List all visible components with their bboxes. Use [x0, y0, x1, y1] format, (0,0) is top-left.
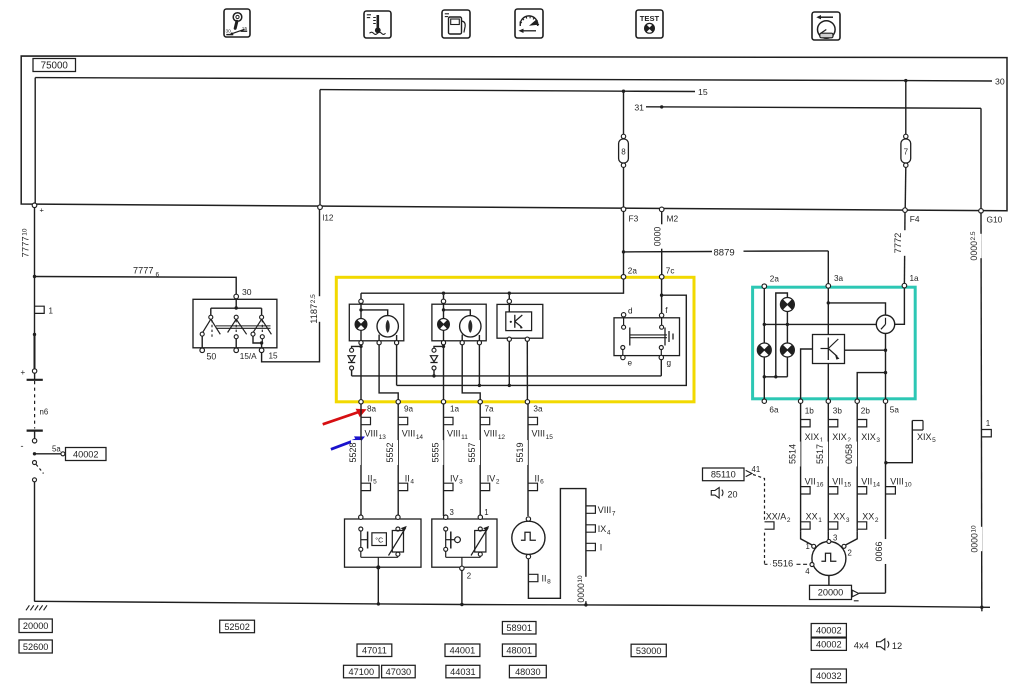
wire column 5517 [827, 403, 829, 531]
connector II4 [398, 483, 408, 490]
svg-text:F3: F3 [629, 214, 639, 224]
svg-text:40002: 40002 [816, 640, 842, 650]
fuel sender pin 2 [460, 566, 464, 570]
svg-text:41: 41 [752, 465, 761, 474]
svg-text:F4: F4 [910, 214, 920, 224]
wire label 5517 [818, 442, 828, 467]
svg-text:53000: 53000 [636, 646, 662, 656]
wire 7a step [462, 345, 480, 400]
wire D2 to diode line [433, 370, 435, 376]
ignition switch wire 50 [201, 336, 203, 348]
svg-text:1a: 1a [910, 274, 920, 283]
gauge 2 dial [460, 316, 481, 337]
20000 output arrow [852, 590, 859, 597]
node 5a [883, 399, 887, 403]
wire battery feed upper [34, 208, 36, 277]
module K symbol [827, 338, 829, 361]
ignition switch contact drops [210, 308, 212, 315]
temp sender rheostat [392, 531, 403, 553]
wire tach to 20000 [828, 576, 830, 586]
connector IX4 on loop [586, 525, 596, 532]
temp sender pins top [359, 515, 363, 519]
fuel sender box [432, 519, 497, 567]
wire fuel sender to ground [461, 571, 463, 605]
wire label 5519 [518, 440, 528, 465]
check panel lamp line [764, 323, 876, 325]
connector VIII7 on loop [586, 506, 596, 513]
wire 2b to tach pin2 [846, 532, 857, 545]
svg-text:20000: 20000 [23, 621, 49, 631]
icon fuel pump symbol [442, 10, 470, 38]
wire lamp B to 6a [763, 357, 765, 400]
svg-text:2: 2 [467, 572, 471, 581]
wire column 5557 [479, 404, 481, 516]
svg-text:M2: M2 [667, 214, 679, 224]
wire label 0000 2.5 G10 [972, 234, 982, 258]
wire column 5552 [397, 404, 399, 516]
wire label 5555 [433, 440, 443, 465]
connector XIX1 [801, 420, 811, 427]
svg-text:d: d [628, 307, 633, 316]
label box 48001 [502, 644, 536, 657]
wire 3b to tach pin3 [827, 532, 829, 540]
gauge module 1 lower wiring [360, 330, 362, 340]
svg-text:9a: 9a [404, 405, 414, 414]
svg-text:44001: 44001 [450, 646, 476, 656]
svg-text:7772: 7772 [893, 233, 903, 254]
svg-text:I: I [600, 543, 603, 553]
tach pin 2 [842, 544, 846, 548]
wire 9a step [379, 345, 398, 400]
label box 44001 [445, 644, 480, 657]
wire battery negative down [34, 482, 36, 601]
ground symbol hatching [26, 605, 29, 610]
wire column 5555 [443, 404, 445, 516]
svg-text:1a: 1a [450, 405, 460, 414]
svg-text:3: 3 [450, 508, 454, 517]
connector VII16 [801, 487, 811, 494]
svg-text:1: 1 [49, 307, 54, 316]
wire label 5557 [470, 440, 480, 465]
svg-text:58901: 58901 [506, 623, 532, 633]
node 1a turquoise [902, 283, 907, 288]
svg-text:31: 31 [634, 102, 644, 112]
junction bus gauge2 [442, 292, 445, 295]
connector VII15 [828, 487, 838, 494]
svg-text:0000: 0000 [653, 227, 663, 247]
wire bus 30 [35, 78, 992, 81]
node 7a [478, 400, 482, 404]
temp sender output junction [376, 565, 380, 569]
wire K left pin to 1b [801, 349, 813, 400]
fuel sender pin 3 [444, 515, 448, 519]
tachometer square wave [821, 553, 836, 561]
transducer pin g [659, 346, 663, 350]
junction battery wire [33, 333, 36, 336]
node 6a [762, 399, 766, 403]
wire K bottom to 3b [827, 364, 829, 400]
wire 5a column [885, 403, 887, 593]
wire label 0000 10 loop [579, 577, 589, 601]
svg-text:-: - [21, 441, 24, 451]
wire temp sender to ground [377, 567, 379, 604]
svg-text:44031: 44031 [450, 667, 476, 677]
gauge module 2 internal wiring [443, 303, 445, 318]
svg-text:2a: 2a [770, 275, 780, 284]
node 3b [826, 399, 830, 403]
svg-text:6a: 6a [769, 406, 779, 415]
wire 7777 to ignition switch [35, 277, 237, 295]
svg-text:g: g [667, 359, 672, 368]
svg-text:85110: 85110 [711, 470, 736, 480]
wire G10 down [980, 212, 983, 607]
svg-text:4x4: 4x4 [854, 641, 869, 651]
junction on bus 31 [660, 105, 663, 108]
tach pin 1 [812, 544, 816, 548]
wire battery feed mid [34, 277, 36, 369]
ignition switch top bar [211, 307, 262, 309]
svg-text:G10: G10 [987, 214, 1003, 224]
junction 7c branch [660, 294, 663, 297]
svg-text:20000: 20000 [818, 588, 844, 598]
terminal 15 [259, 348, 264, 353]
label box 40002 battery [66, 448, 107, 461]
junction 8879 [622, 250, 625, 253]
connector XIX2 [828, 420, 838, 427]
ignition switch wire 15A [235, 339, 237, 348]
gauge module 2 bottom pins [441, 341, 445, 345]
svg-text:3a: 3a [533, 405, 543, 414]
svg-text:°C: °C [375, 537, 383, 545]
svg-text:8a: 8a [367, 405, 377, 414]
junction loop at gauge2 pin3 [478, 384, 481, 387]
wire 2a into cluster [361, 279, 624, 293]
module2 diode branch [442, 345, 445, 348]
gauge module 1 internal wiring [360, 303, 362, 318]
check panel highlight box (turquoise) [753, 287, 916, 399]
wire 3a drop [827, 288, 829, 334]
svg-text:7: 7 [904, 148, 909, 157]
wire pin g to diode line [660, 360, 662, 376]
junction bus stabiliser [508, 292, 511, 295]
svg-text:48030: 48030 [515, 667, 541, 677]
label box 40032 [811, 669, 846, 683]
label box 52502 [220, 620, 255, 633]
node 2b [855, 399, 859, 403]
svg-text:75000: 75000 [41, 61, 69, 72]
temp sender inner pins [359, 527, 363, 531]
label box 20000 ground [19, 619, 52, 633]
wire battery thick [34, 335, 36, 369]
wire column 5514 [800, 403, 802, 531]
temp sender internal bus [360, 551, 362, 557]
junction loop at stabiliser pin [508, 384, 511, 387]
svg-text:15/A: 15/A [240, 352, 257, 361]
node 3a [525, 400, 529, 404]
node 7c yellow [659, 275, 664, 280]
node I12 [318, 205, 323, 210]
junction 5a branch [33, 452, 36, 455]
connector XIX5 [912, 420, 923, 422]
connector XX1 [801, 522, 811, 529]
node 3a turquoise [826, 284, 831, 289]
node F3 [621, 207, 626, 212]
svg-text:47011: 47011 [362, 646, 387, 656]
ignition switch link bar [216, 325, 271, 327]
label box 53000 [631, 644, 666, 657]
svg-text:15: 15 [269, 352, 279, 361]
fuel level float switch [445, 531, 447, 547]
transducer box [614, 318, 680, 356]
wire drop to I12 [319, 90, 321, 206]
connector XX/A2 [765, 522, 775, 529]
speed sensor bottom pin [526, 554, 530, 558]
svg-text:3b: 3b [833, 407, 843, 416]
wire inner left edge [34, 78, 36, 205]
lamp A bypass wire [776, 293, 788, 377]
connector I on loop [586, 543, 596, 550]
dashed wire 85110 to tach pin4 [753, 475, 765, 521]
icon coolant thermometer symbol [364, 11, 391, 38]
connector XX3 [828, 522, 838, 529]
blue annotation arrow [331, 439, 359, 450]
battery cell gap dashed [34, 381, 36, 429]
fuse 7 [904, 134, 908, 138]
speaker symbol 85110 [711, 488, 719, 499]
wire F3 to 2a [623, 211, 625, 274]
label box 40002 upper [811, 624, 846, 638]
icon TEST symbol [636, 10, 663, 38]
label box 47100 [344, 665, 380, 678]
ignition switch feed [235, 299, 237, 308]
svg-text:1: 1 [986, 419, 991, 428]
connector VIII13 [361, 417, 371, 424]
svg-text:5552: 5552 [385, 442, 395, 462]
terminal 15/A [234, 348, 239, 353]
wire module2 pin3 drop [478, 345, 480, 386]
svg-text:6: 6 [156, 272, 160, 279]
node 1a [441, 400, 445, 404]
wire column 0058 [856, 403, 858, 531]
svg-text:47100: 47100 [349, 667, 375, 677]
wire label 5552 [388, 440, 398, 465]
ground junction G10 column [980, 606, 983, 609]
connector II5 [361, 483, 371, 490]
wire speed sensor loop [528, 489, 586, 599]
svg-text:e: e [628, 359, 633, 368]
wire F4 to 1a [903, 212, 906, 283]
svg-text:2b: 2b [861, 407, 871, 416]
svg-text:2: 2 [848, 548, 852, 557]
ignition switch box [193, 299, 277, 348]
wire label 0058 [847, 442, 857, 467]
ignition switch wire 15 internal [253, 336, 262, 343]
svg-text:0058: 0058 [844, 444, 854, 464]
electronic module K box [813, 335, 845, 364]
fuel sender rheostat [475, 531, 486, 553]
module1 diode branch [359, 345, 362, 348]
icon ignition key symbol [224, 9, 250, 37]
connector VIII11 [444, 417, 454, 424]
svg-text:5555: 5555 [430, 442, 440, 462]
clock [876, 315, 894, 333]
connector XIX3 [857, 420, 867, 427]
wire label 5514 [791, 442, 801, 467]
wire label 0000 10 G10 [973, 527, 983, 551]
fuse 7 wire lower [904, 167, 907, 209]
svg-text:n6: n6 [40, 408, 49, 417]
svg-text:47030: 47030 [386, 667, 412, 677]
svg-text:5519: 5519 [515, 442, 525, 462]
ignition switch arm 15 [253, 319, 261, 332]
connector II8 [528, 574, 538, 581]
connector II6 [528, 483, 538, 490]
connector IV3 [444, 483, 454, 490]
label box 48030 [509, 665, 546, 678]
svg-text:30: 30 [995, 76, 1005, 86]
connector IV2 [480, 483, 490, 490]
wire M2 to 7c [661, 212, 663, 275]
svg-text:15: 15 [698, 87, 708, 97]
wire to 40002 [35, 453, 61, 455]
warning lamp A [780, 298, 794, 312]
wire 7c into cluster [661, 279, 663, 313]
wire 8a drop [360, 345, 362, 400]
connector VIII12 [480, 417, 490, 424]
fuel sender inner pins [444, 527, 448, 531]
wire 3a to clock top [828, 303, 885, 315]
ignition switch arm 50 [203, 319, 211, 332]
junction unit 75000 outer box [21, 56, 1007, 211]
wire label 0066 [877, 539, 887, 564]
voltage stabiliser feed [508, 303, 510, 312]
svg-text:3a: 3a [834, 274, 844, 283]
warning lamp 2 [438, 319, 450, 331]
tach pin 4 [810, 563, 814, 567]
connector VIII15 [528, 417, 538, 424]
svg-text:8: 8 [621, 148, 626, 157]
svg-text:7a: 7a [485, 405, 495, 414]
voltage stabiliser bottom pins [507, 337, 511, 341]
svg-text:+: + [21, 368, 26, 377]
diode D2 [432, 348, 436, 352]
svg-text:2a: 2a [628, 267, 638, 276]
svg-text:0066: 0066 [874, 541, 884, 561]
label box 47030 [382, 665, 416, 678]
svg-text:40002: 40002 [816, 626, 842, 636]
wire clock to 5a [885, 334, 887, 400]
svg-text:40032: 40032 [816, 671, 842, 681]
tach pin 3 [827, 539, 831, 543]
svg-text:5514: 5514 [788, 444, 798, 464]
transducer pin f [659, 313, 663, 317]
wire module1 pin3 drop [396, 345, 398, 386]
svg-text:5a: 5a [52, 445, 61, 454]
icon odometer gauge symbol [812, 12, 840, 40]
instrument cluster highlight box (yellow) [336, 277, 694, 402]
node 9a [396, 400, 400, 404]
wire diode line [351, 370, 353, 376]
svg-text:7777: 7777 [133, 266, 153, 276]
wire loop to ground [585, 572, 587, 605]
connector 1 [35, 306, 44, 313]
wire label 5528 [351, 440, 361, 465]
connector 1 G10 [982, 430, 992, 437]
speed sensor circle [512, 521, 545, 554]
svg-text:5516: 5516 [773, 559, 794, 569]
svg-text:5557: 5557 [467, 442, 477, 462]
svg-text:20: 20 [728, 489, 738, 499]
svg-text:1: 1 [484, 508, 488, 517]
svg-text:4: 4 [805, 567, 810, 576]
junction on bus 30 [904, 79, 907, 82]
svg-text:30: 30 [242, 287, 252, 297]
node 8a [359, 400, 363, 404]
svg-text:40002: 40002 [73, 449, 99, 459]
temperature sender box [345, 519, 422, 567]
wire column 5528 [360, 404, 362, 516]
node + (battery feed) [32, 203, 37, 208]
fuse 8 [621, 134, 625, 138]
svg-text:48001: 48001 [506, 646, 532, 656]
svg-text:3: 3 [833, 533, 837, 542]
svg-text:50: 50 [207, 352, 217, 362]
node M2 [659, 207, 664, 212]
red annotation arrow [323, 411, 361, 424]
wire label 1187 2.5 [312, 296, 322, 322]
battery negative terminal [27, 430, 43, 432]
gauge 1 dial [377, 316, 398, 337]
gauge module 1 bottom pins [359, 341, 363, 345]
label box 52600 [19, 640, 52, 653]
svg-text:30: 30 [226, 29, 232, 35]
label box 20000 tach [810, 585, 852, 599]
wire 15 to 1187 [262, 210, 320, 362]
label box 40002 lower [811, 638, 846, 650]
voltage stabiliser pin wires [508, 341, 510, 385]
warning lamp 1 [355, 319, 367, 331]
node 2a turquoise [762, 284, 767, 289]
node G10 [979, 209, 984, 214]
svg-text:52600: 52600 [23, 642, 49, 652]
85110 arrow [746, 470, 752, 476]
ground rail [34, 601, 990, 607]
speed sensor top pin [526, 517, 530, 521]
svg-text:5528: 5528 [348, 442, 358, 462]
svg-text:1: 1 [806, 542, 810, 551]
warning lamp B [757, 343, 771, 357]
transducer inner symbol [629, 328, 631, 346]
fuse 8 wire upper [623, 91, 625, 134]
svg-text:TEST: TEST [640, 14, 660, 23]
svg-text:5a: 5a [890, 406, 900, 415]
wire 1a drop [443, 345, 445, 400]
check panel 2a drop [763, 288, 765, 343]
svg-text:+: + [40, 206, 45, 215]
label box 58901 [502, 622, 536, 635]
svg-text:52502: 52502 [224, 622, 250, 632]
transducer pin d [621, 313, 625, 317]
junction XIX5 branch [884, 461, 887, 464]
junction 7777 branch [33, 275, 36, 278]
transducer pin e [621, 346, 625, 350]
label 75000 [33, 59, 76, 72]
svg-text:7c: 7c [666, 267, 675, 276]
fuel sender internal bus [445, 551, 447, 557]
wire 7c branch to pins-f loop [397, 295, 687, 385]
temp sensor symbol [360, 531, 362, 547]
wire 8879 [624, 251, 713, 253]
